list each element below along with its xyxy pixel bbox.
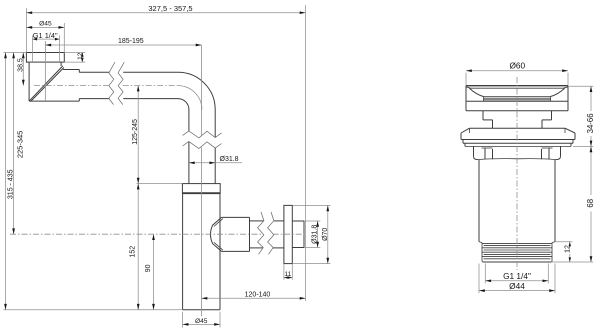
svg-text:38.5: 38.5	[18, 58, 25, 72]
svg-text:327,5 - 357,5: 327,5 - 357,5	[148, 4, 192, 13]
svg-text:185-195: 185-195	[118, 38, 144, 45]
svg-text:68: 68	[586, 199, 595, 208]
svg-text:G1 1/4": G1 1/4"	[503, 271, 531, 281]
svg-text:Ø45: Ø45	[39, 20, 52, 27]
svg-text:225-345: 225-345	[16, 131, 25, 159]
svg-text:125-245: 125-245	[132, 119, 139, 145]
svg-text:Ø45: Ø45	[195, 318, 208, 325]
svg-text:G1 1/4": G1 1/4"	[33, 31, 58, 40]
svg-text:11: 11	[285, 271, 292, 278]
svg-text:120-140: 120-140	[245, 291, 271, 298]
svg-text:Ø44: Ø44	[509, 281, 525, 291]
svg-text:12: 12	[563, 245, 572, 253]
svg-text:Ø31.8: Ø31.8	[220, 156, 239, 163]
svg-text:12: 12	[77, 52, 84, 60]
svg-text:152: 152	[129, 246, 136, 258]
svg-text:Ø70: Ø70	[322, 228, 329, 241]
svg-text:34-66: 34-66	[586, 113, 595, 133]
svg-text:Ø31.8: Ø31.8	[312, 225, 319, 244]
svg-text:Ø60: Ø60	[509, 61, 525, 71]
svg-text:315 - 435: 315 - 435	[7, 169, 14, 199]
svg-text:90: 90	[145, 264, 152, 272]
